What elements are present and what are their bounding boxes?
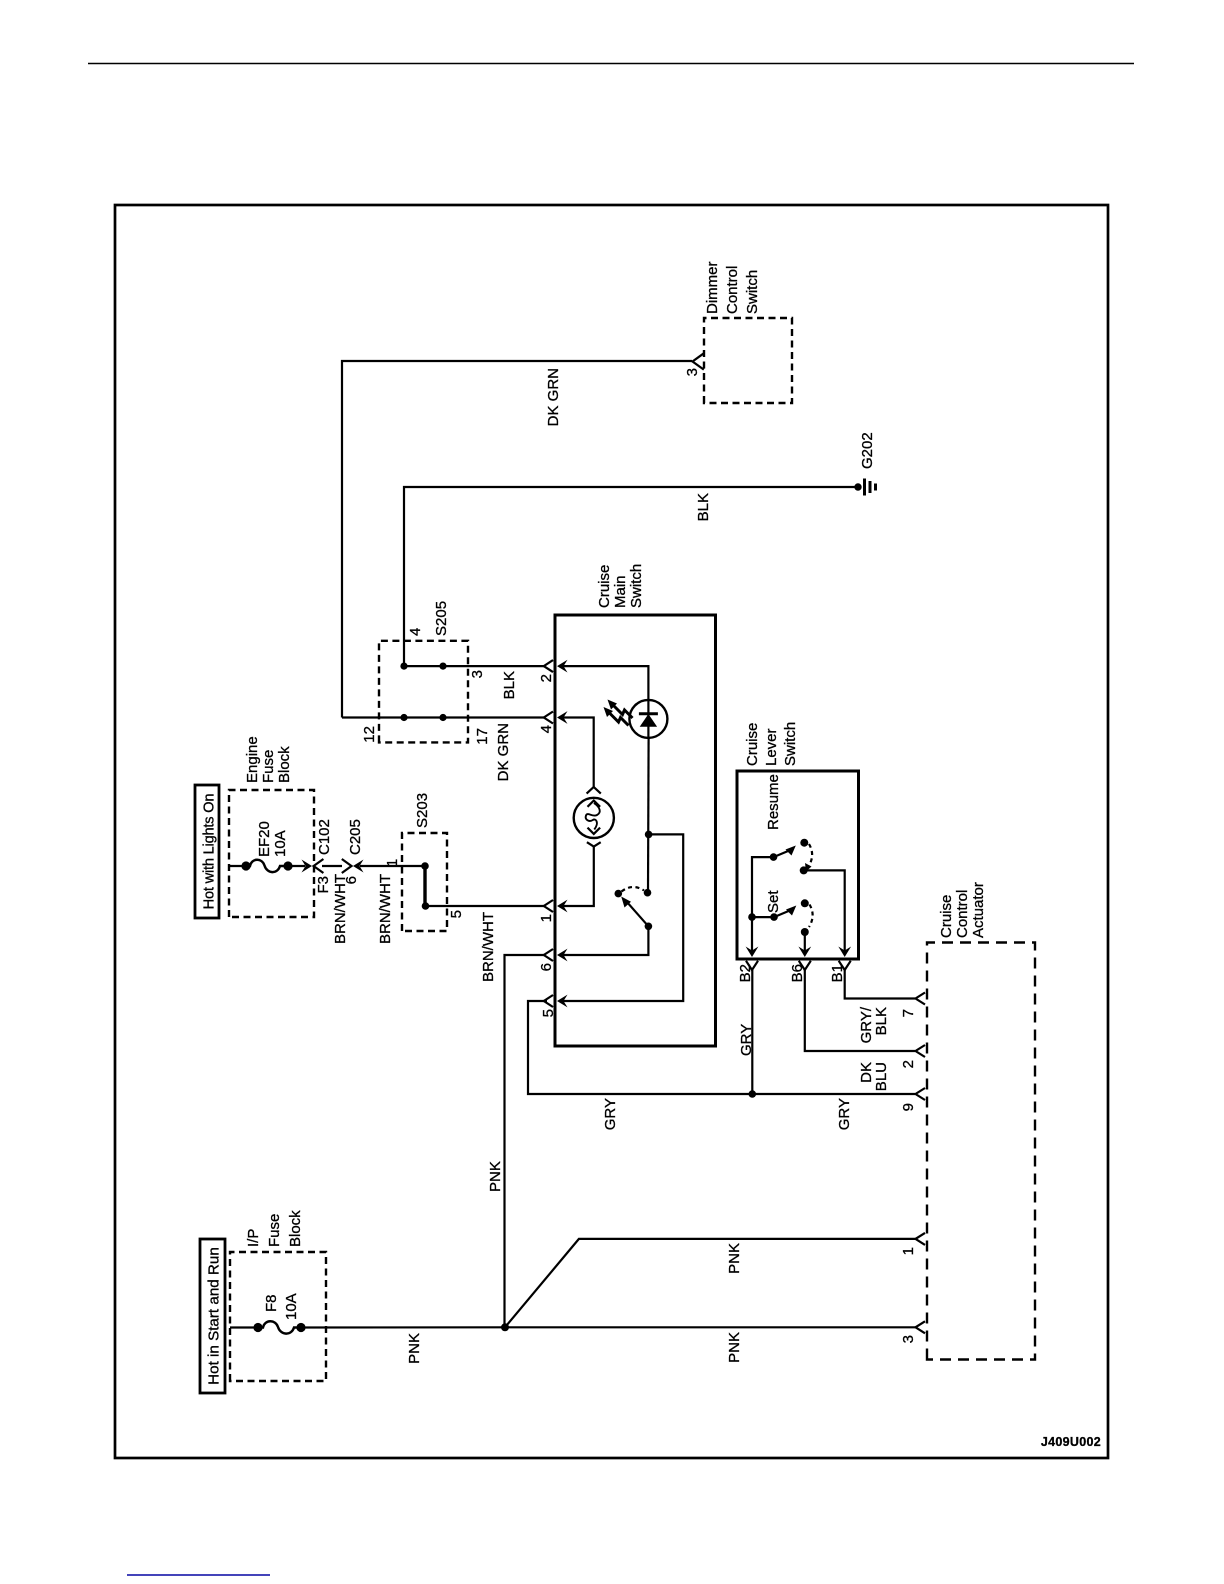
wire fuse EF20 to C102 — [288, 865, 305, 867]
Dimmer Control Switch (dashed box) — [704, 318, 792, 403]
pin 3 terminal (dimmer) — [693, 353, 704, 369]
wire BLK S205 to switch pin 2 (with S205 splice dots) — [400, 662, 544, 669]
svg-text:5: 5 — [448, 910, 465, 918]
svg-text:2: 2 — [900, 1060, 917, 1068]
svg-text:BLK: BLK — [501, 671, 518, 699]
svg-text:BLK: BLK — [873, 1007, 890, 1035]
svg-text:10A: 10A — [283, 1293, 300, 1320]
svg-text:Switch: Switch — [782, 722, 799, 766]
connector C102 — [302, 819, 334, 893]
pin 2 terminal (actuator) — [900, 1045, 925, 1068]
svg-text:Engine: Engine — [244, 736, 261, 783]
pin 9 terminal (actuator) — [900, 1088, 925, 1111]
wire lamp to pin 1 — [562, 847, 594, 906]
blue footer line — [127, 1574, 270, 1576]
wire pin6 to contact pivot — [562, 926, 648, 955]
pin B1 terminal (lever switch) — [829, 947, 851, 983]
I/P Fuse Block (dashed box) — [230, 1252, 326, 1381]
wire set contact to B6 exit — [804, 932, 806, 954]
label GRY/BLK — [858, 1006, 890, 1043]
svg-text:G202: G202 — [859, 432, 876, 469]
splice S203 (dashed box) — [402, 833, 447, 931]
svg-text:PNK: PNK — [406, 1333, 423, 1364]
svg-text:DK GRN: DK GRN — [545, 368, 562, 426]
svg-text:Switch: Switch — [744, 270, 761, 314]
label DK BLU — [858, 1062, 890, 1091]
svg-text:Control: Control — [724, 266, 741, 314]
svg-text:Control: Control — [954, 890, 971, 938]
splice bus inside S203 — [421, 862, 429, 910]
LED indicator (cruise lamp) — [604, 700, 668, 739]
wire BRN/WHT S203 to cruise main switch pin 1 — [425, 905, 545, 907]
svg-text:Block: Block — [287, 1210, 304, 1247]
svg-text:EF20: EF20 — [256, 821, 273, 857]
svg-text:PNK: PNK — [726, 1243, 743, 1274]
svg-text:PNK: PNK — [487, 1161, 504, 1192]
svg-text:Resume: Resume — [765, 774, 782, 830]
svg-text:B6: B6 — [789, 964, 806, 982]
svg-text:BLK: BLK — [695, 493, 712, 521]
svg-text:C205: C205 — [347, 819, 364, 855]
svg-text:Set: Set — [765, 890, 782, 913]
Engine Fuse Block (dashed box) — [229, 790, 314, 917]
pin 2 terminal (main switch) — [538, 660, 568, 683]
ground G202 — [854, 432, 876, 495]
svg-text:PNK: PNK — [726, 1332, 743, 1363]
svg-text:I/P: I/P — [245, 1229, 262, 1247]
pin 1 terminal (main switch) — [538, 900, 568, 923]
svg-text:9: 9 — [900, 1103, 917, 1111]
pin 5 terminal (main switch) — [540, 995, 568, 1018]
node GRY junction — [749, 1090, 757, 1098]
wire PNK junction to cruise main switch pin 6 — [505, 955, 546, 1327]
svg-text:Fuse: Fuse — [260, 750, 277, 783]
svg-text:GRY: GRY — [738, 1024, 755, 1056]
wire resume contact to B1 exit — [804, 870, 845, 954]
svg-text:6: 6 — [343, 876, 360, 884]
svg-text:Cruise: Cruise — [744, 723, 761, 766]
node PNK junction — [501, 1323, 509, 1331]
svg-text:Actuator: Actuator — [970, 882, 987, 938]
label Dimmer Control Switch — [704, 262, 761, 315]
svg-text:Hot in Start and Run: Hot in Start and Run — [206, 1247, 223, 1385]
svg-text:3: 3 — [900, 1335, 917, 1343]
svg-text:17: 17 — [474, 728, 491, 745]
wire GRY B2 to junction — [751, 970, 753, 1094]
svg-text:B1: B1 — [829, 964, 846, 982]
wire GRY switch pin5 to actuator pin 9 — [528, 1001, 915, 1094]
svg-text:F8: F8 — [263, 1294, 280, 1312]
wire set common — [752, 916, 774, 918]
svg-text:Main: Main — [612, 575, 629, 608]
pin B2 terminal (lever switch) — [737, 947, 758, 983]
svg-text:Hot with Lights On: Hot with Lights On — [202, 794, 218, 910]
fuse F8 10A — [230, 1293, 306, 1333]
label Engine Fuse Block — [244, 736, 293, 783]
label I/P Fuse Block — [245, 1210, 304, 1247]
svg-text:2: 2 — [538, 674, 555, 682]
svg-text:Cruise: Cruise — [938, 895, 955, 938]
pin 3 terminal (actuator) — [900, 1321, 925, 1343]
svg-text:BLU: BLU — [873, 1062, 890, 1091]
svg-text:BRN/WHT: BRN/WHT — [377, 874, 394, 944]
main switch contact (momentary) — [615, 887, 653, 930]
wire B2 common (inside lever switch) — [752, 857, 774, 954]
set switch contacts — [770, 899, 812, 936]
splice S205 (dashed box) — [379, 641, 468, 743]
node Hot with Lights On label — [195, 785, 219, 918]
wire DK BLU B6 to actuator pin 2 — [805, 970, 915, 1051]
svg-text:BRN/WHT: BRN/WHT — [480, 912, 497, 982]
Cruise Main Switch (solid box) — [555, 615, 716, 1046]
svg-text:S205: S205 — [433, 601, 450, 636]
wire GRY/BLK B1 to actuator pin 7 — [845, 970, 915, 999]
svg-text:1: 1 — [900, 1247, 917, 1255]
wire BLK S205 pin4 to ground G202 — [404, 487, 858, 666]
wire BRN/WHT C102 to C205 — [322, 865, 342, 867]
node set/resume junction — [748, 913, 756, 921]
wire PNK from fuse F8 down to junction — [301, 1326, 505, 1328]
svg-text:Lever: Lever — [763, 728, 780, 766]
wire pin4 to illumination lamp — [562, 718, 594, 788]
pin B6 terminal (lever switch) — [789, 947, 811, 983]
svg-text:DK GRN: DK GRN — [495, 723, 512, 781]
connector C205 — [342, 819, 364, 884]
wire DK GRN to dimmer control switch — [342, 361, 692, 718]
label Cruise Control Actuator — [938, 882, 987, 938]
svg-text:Dimmer: Dimmer — [704, 262, 721, 315]
svg-text:10A: 10A — [272, 830, 289, 857]
svg-text:3: 3 — [684, 368, 701, 376]
fuse EF20 10A — [229, 821, 293, 872]
svg-text:4: 4 — [407, 628, 424, 636]
resume switch contacts — [770, 839, 812, 875]
wire PNK junction to actuator pin 3 — [505, 1326, 916, 1328]
wire pin2 to LED (inside switch) — [562, 666, 648, 700]
svg-text:S203: S203 — [414, 793, 431, 828]
node junction (LED/pin5) — [645, 831, 653, 839]
pin 7 terminal (actuator) — [900, 993, 925, 1018]
wire DK GRN through S205 (pin 12 to 17) down to switch pin 4 — [342, 714, 544, 721]
svg-text:J409U002: J409U002 — [1041, 1435, 1101, 1449]
svg-text:GRY: GRY — [602, 1098, 619, 1130]
svg-text:Cruise: Cruise — [596, 565, 613, 608]
svg-text:3: 3 — [469, 670, 486, 678]
label Cruise Lever Switch — [744, 722, 799, 766]
label Cruise Main Switch — [596, 564, 645, 608]
svg-text:5: 5 — [540, 1009, 557, 1017]
diagram outer border — [115, 205, 1108, 1458]
svg-text:1: 1 — [538, 914, 555, 922]
Cruise Lever Switch (solid box) — [737, 771, 859, 959]
svg-text:6: 6 — [538, 963, 555, 971]
svg-text:Switch: Switch — [628, 564, 645, 608]
pin 6 terminal (main switch) — [538, 949, 568, 972]
svg-text:Block: Block — [276, 746, 293, 783]
svg-text:1: 1 — [384, 859, 401, 867]
svg-text:Fuse: Fuse — [266, 1214, 283, 1247]
svg-text:GRY: GRY — [836, 1098, 853, 1130]
wire PNK diagonal branch to actuator pin 1 — [505, 1239, 916, 1327]
svg-text:4: 4 — [538, 725, 555, 733]
illumination lamp (main switch) — [574, 787, 614, 847]
wire LED to junction and switch contact — [647, 738, 650, 893]
svg-text:12: 12 — [361, 726, 378, 743]
wire BRN/WHT C205 to S203 — [360, 865, 425, 867]
node Hot in Start and Run label — [200, 1239, 225, 1393]
pin 1 terminal (actuator) — [900, 1233, 925, 1255]
svg-text:C102: C102 — [316, 819, 333, 855]
Cruise Control Actuator (dashed box) — [927, 943, 1035, 1360]
svg-text:7: 7 — [900, 1009, 917, 1017]
wire junction down to pin 5 — [562, 834, 683, 1001]
svg-text:F3: F3 — [315, 876, 332, 894]
top rule — [88, 63, 1134, 65]
pin 4 terminal (main switch) — [538, 711, 568, 733]
